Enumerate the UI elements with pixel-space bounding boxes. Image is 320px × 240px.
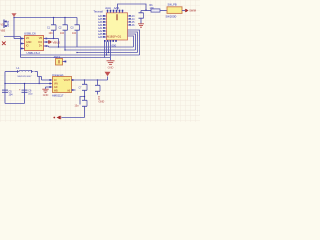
wire y117 bottom — [62, 117, 85, 119]
wire U1 pin elbow x135 — [128, 34, 136, 50]
wire U1 pin elbow x139 — [128, 30, 140, 55]
U2 right pin pads — [72, 79, 74, 81]
node junction (38.7,83) — [39, 83, 40, 84]
inductor L1 — [17, 66, 34, 78]
capacitor C1 on x53 — [47, 18, 56, 39]
wire branch left of C8 — [80, 97, 85, 105]
wire bus H5 y57 — [21, 57, 111, 59]
wire x48 short drop — [48, 46, 50, 47]
svg-text:GND: GND — [108, 65, 114, 69]
svg-text:SWIM: SWIM — [189, 10, 196, 13]
U2 left pin pads — [49, 79, 51, 81]
svg-text:VIN: VIN — [54, 84, 58, 86]
wire x4.5 left vertical — [4, 72, 6, 104]
svg-text:104: 104 — [9, 94, 14, 97]
wire R1 to SW1 — [160, 10, 167, 12]
node junction (76.5,52) — [76, 52, 77, 53]
svg-text:104: 104 — [60, 32, 65, 35]
capacitor C4 top right — [139, 11, 144, 24]
node junction (4.5,84) — [4, 83, 5, 84]
wire bus H1 y46.5 — [49, 46, 134, 48]
wire top rail y17 — [14, 17, 77, 19]
capacitor C2 on x64.5 — [58, 18, 67, 51]
svg-text:VBUS: VBUS — [53, 41, 61, 45]
svg-text:I/O: I/O — [26, 37, 29, 40]
wire bus H4 y54.5 — [21, 54, 140, 56]
wire U3 right pin C stub — [44, 45, 49, 47]
svg-text:GD: GD — [54, 87, 58, 89]
svg-text:GND: GND — [26, 41, 32, 44]
wire y103 bottom loop — [5, 103, 25, 105]
svg-text:SW_PB: SW_PB — [168, 3, 177, 7]
node junction (53,17) — [53, 17, 54, 18]
wire VCC drop x13.5 — [13, 18, 15, 39]
wire into U3 pin1 y38 — [14, 38, 25, 40]
capacitor C3 on x76.5 — [70, 18, 79, 48]
svg-text:Tssmail: Tssmail — [94, 10, 104, 14]
port SWIM red arrow top right — [185, 9, 196, 13]
svg-text:MH2029-300Y: MH2029-300Y — [18, 76, 33, 78]
svg-text:AA8: AA8 — [98, 36, 103, 39]
capacitor C5 left edge — [2, 90, 13, 96]
IC U2 regulator — [52, 73, 72, 98]
svg-text:VOUT: VOUT — [64, 80, 71, 82]
svg-text:SW200D: SW200D — [166, 14, 177, 18]
svg-text:104: 104 — [72, 32, 77, 35]
capacitor C7 — [82, 80, 87, 100]
wire y10 top right — [141, 10, 151, 12]
wire U2 pin2 stub — [72, 89, 76, 91]
node junction (64.5,17) — [64, 17, 65, 18]
node junction (84,80) — [84, 79, 85, 80]
ground GND top right — [138, 24, 144, 27]
U1 left pins — [98, 15, 107, 39]
wire U2 out y79.5 — [72, 79, 108, 81]
switch SW1 box top right — [166, 3, 183, 19]
wire x38.7 tee — [38, 77, 40, 84]
node junction (84,96) — [84, 96, 85, 97]
port red arrow bottom — [53, 116, 60, 119]
capacitor C6 electrolytic — [19, 89, 33, 96]
wire SW1 right stub — [182, 10, 185, 12]
wire U1 pin elbow x133 — [128, 36, 134, 47]
wire U3 pin3 stub — [21, 48, 25, 50]
IC U1 mcu — [94, 10, 128, 41]
ground GND at U2 — [42, 89, 48, 97]
wire U1 pin elbow x137 — [128, 32, 138, 53]
node junction (24,84) — [24, 83, 25, 84]
U1 top pins — [105, 6, 123, 13]
svg-text:GND: GND — [43, 94, 49, 97]
svg-text:M1B1F+D1: M1B1F+D1 — [107, 35, 122, 39]
IC U3 usb protection — [21, 32, 47, 51]
svg-text:IO: IO — [26, 45, 29, 48]
svg-text:10u: 10u — [28, 93, 33, 96]
svg-text:000: 000 — [112, 43, 117, 47]
power flag 3V3 — [105, 72, 111, 80]
svg-text:104: 104 — [49, 32, 54, 35]
U1 bottom pins — [104, 40, 117, 60]
svg-text:USB1: USB1 — [7, 20, 10, 27]
node junction (53,38) — [53, 38, 54, 39]
svg-text:VB: VB — [39, 37, 43, 40]
svg-text:USBLC6-2: USBLC6-2 — [27, 51, 41, 55]
svg-text:IO2: IO2 — [38, 41, 43, 44]
node junction (118.5,46.5) — [108, 52, 109, 53]
wire x58 drop — [58, 39, 60, 48]
node junction (97,80) — [97, 79, 98, 80]
wire x37 drop — [37, 72, 39, 77]
wire U2 left pin3 stub — [46, 86, 53, 88]
svg-text:AAA: AAA — [114, 6, 120, 10]
wire bus H3 y52 — [77, 52, 138, 54]
port VBUS red arrow — [49, 40, 61, 44]
svg-text:GND: GND — [99, 100, 105, 104]
wire y36 from connector — [4, 36, 21, 38]
connector P1 left edge — [1, 20, 11, 33]
svg-text:AAA: AAA — [105, 6, 111, 10]
power flag VCC top-left — [11, 13, 16, 17]
wire gnd stem U2 — [45, 87, 47, 89]
ground GND mid below U1 — [107, 61, 115, 70]
node junction (146,10) — [145, 9, 146, 10]
node junction (115.5,54.5) — [106, 54, 107, 55]
node junction (13.5,17) — [13, 17, 14, 18]
wire x24 cap riser — [24, 84, 26, 104]
wire y79.5 into U2 — [42, 79, 53, 81]
capacitor C9 — [95, 80, 100, 101]
resistor R1 top right — [150, 4, 161, 12]
wire x20 vertical — [20, 37, 22, 58]
antenna ANT1 box — [54, 55, 67, 65]
svg-text:VB5: VB5 — [1, 29, 6, 32]
wire y83 into U2 — [5, 83, 53, 85]
U1 right pins — [128, 15, 136, 27]
net flag red left edge — [2, 42, 6, 46]
wire y71 right — [35, 71, 38, 73]
capacitor C8 — [75, 87, 88, 117]
wire U3 pin2 stub — [21, 43, 25, 45]
wire y71 left — [5, 71, 18, 73]
wire U3 right pin B stub — [44, 41, 49, 43]
wire y76 jog — [38, 76, 42, 78]
svg-text:10u: 10u — [75, 105, 80, 108]
wire U3 right pin A stub — [44, 38, 59, 40]
svg-text:WB: WB — [54, 91, 58, 93]
wire bus H2 y49.5 — [65, 49, 136, 51]
node junction (58,46.5) — [58, 46, 59, 47]
svg-text:AMS1117: AMS1117 — [52, 94, 64, 98]
wire x41 drop — [41, 77, 43, 81]
node junction (64.5,49.5) — [64, 49, 65, 50]
wire U1 top net — [118, 4, 147, 10]
